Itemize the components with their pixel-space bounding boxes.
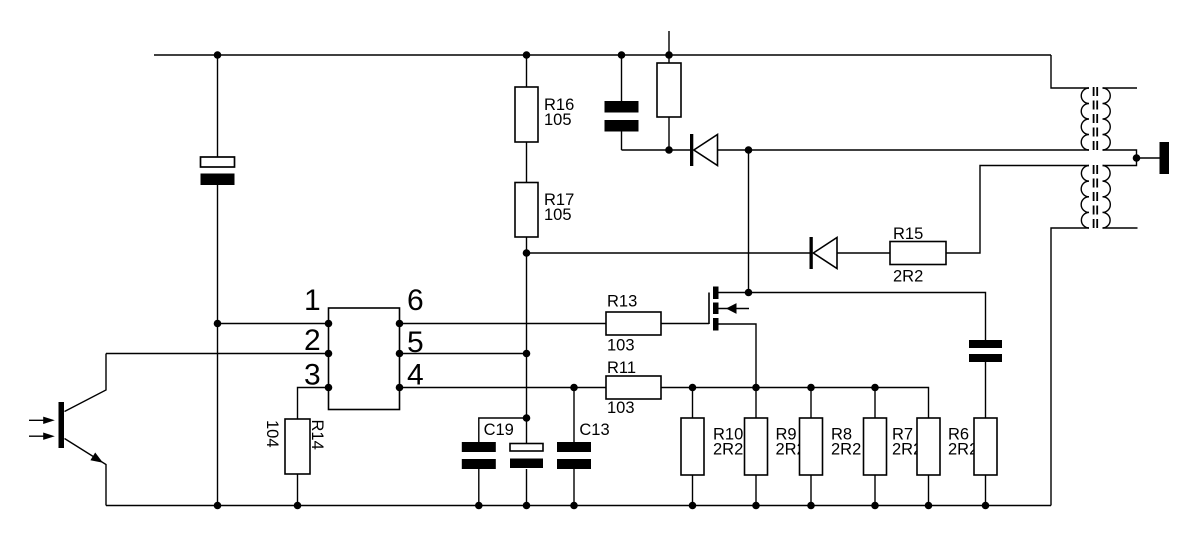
resistor clamp (top) bbox=[657, 63, 681, 117]
junction rail / C13 bbox=[570, 502, 578, 510]
junction primary node bbox=[745, 146, 753, 154]
junction rail / R9 bbox=[752, 502, 760, 510]
wire R14 bottom to rail bbox=[297, 474, 299, 506]
wire pin6 to R13 bbox=[400, 323, 607, 325]
wire phototransistor collector bbox=[65, 354, 107, 412]
wire R10 bottom stub bbox=[692, 475, 694, 506]
terminal bar (output) bbox=[1160, 142, 1170, 174]
junction rail / R8 bbox=[807, 502, 815, 510]
wire snubber cap bottom stub bbox=[621, 132, 623, 151]
wire left cap branch upper (from top rail to C bulk) bbox=[217, 55, 219, 157]
junction secondary center tap bbox=[1133, 154, 1141, 162]
pin 2 junction bbox=[325, 350, 333, 358]
svg-text:R13: R13 bbox=[607, 293, 637, 311]
wire drain row to snubber bbox=[719, 293, 986, 341]
transformer T1 primary winding bbox=[1081, 88, 1089, 150]
wire clamp resistor bottom stub bbox=[668, 117, 670, 150]
junction top rail / snubber cap bbox=[618, 51, 626, 59]
pin 5 junction bbox=[396, 350, 404, 358]
junction clamp bottom bbox=[665, 146, 673, 154]
wire R7 bottom stub bbox=[874, 475, 876, 506]
label R14 bbox=[308, 420, 326, 450]
label R9 bbox=[776, 426, 806, 459]
svg-text:R14: R14 bbox=[308, 420, 326, 450]
label R16 bbox=[544, 96, 574, 129]
junction R17 bottom bbox=[523, 249, 531, 257]
wire pin1 to IC bbox=[218, 323, 329, 325]
resistor snubber bbox=[974, 418, 997, 475]
emitter arrow bbox=[90, 453, 103, 463]
wire top rail right corner down to transformer bbox=[1051, 55, 1089, 88]
wire phototransistor emitter to bottom rail bbox=[65, 439, 107, 506]
label R8 bbox=[831, 426, 861, 459]
svg-text:103: 103 bbox=[607, 399, 635, 417]
wire C13 bottom to rail bbox=[573, 469, 575, 506]
wire bottom rail right corner up to transformer bbox=[1051, 228, 1089, 506]
svg-text:C13: C13 bbox=[579, 421, 609, 439]
wire secondary center tap upper bbox=[1103, 150, 1137, 158]
resistor R6 bbox=[917, 418, 940, 475]
wire C19 branch bbox=[479, 418, 527, 442]
wire R13 to MOSFET gate bbox=[661, 323, 709, 325]
wire secondary center tap lower bbox=[1103, 158, 1137, 166]
wire center tap to terminal bbox=[1137, 157, 1160, 159]
resistor R10 bbox=[681, 418, 704, 475]
resistor R17 bbox=[515, 183, 538, 238]
wire R6 bottom stub bbox=[928, 475, 930, 506]
junction rail / R7 bbox=[871, 502, 879, 510]
junction source / R9 top bbox=[752, 384, 760, 392]
wire R8 bottom stub bbox=[810, 475, 812, 506]
pin 3 label bbox=[304, 359, 321, 392]
junction pin1 / bulk branch bbox=[214, 320, 222, 328]
label R7 bbox=[892, 426, 922, 459]
wire top supply rail bbox=[154, 54, 1051, 56]
wire R11 to resistor bank bbox=[661, 388, 929, 419]
wire diode D1 to primary winding bbox=[718, 149, 1090, 151]
junction C19 branch bbox=[523, 414, 531, 422]
label R10 bbox=[713, 426, 743, 459]
MOSFET Q2 gate bar bbox=[708, 293, 710, 325]
capacitor snubber top bbox=[605, 101, 639, 132]
light arrow 2 bbox=[29, 433, 55, 440]
resistor R7 bbox=[864, 418, 887, 475]
wire R16 top stub bbox=[526, 55, 528, 87]
svg-text:R11: R11 bbox=[607, 359, 636, 377]
svg-text:2R2: 2R2 bbox=[713, 441, 743, 459]
wire pin4 to R11 bbox=[400, 387, 607, 389]
wire snubber cap to R snub bbox=[985, 362, 987, 419]
junction C13 / pin4 row bbox=[570, 384, 578, 392]
wire C19 bottom to rail bbox=[478, 469, 480, 506]
capacitor C19 bbox=[462, 442, 496, 469]
pin 6 label bbox=[407, 284, 424, 317]
wire R15 to corner bbox=[946, 166, 1089, 254]
transistor Q1 phototransistor bar bbox=[59, 402, 65, 448]
svg-text:103: 103 bbox=[607, 337, 635, 355]
transformer T1 lower-left winding bbox=[1081, 166, 1089, 229]
svg-text:104: 104 bbox=[263, 420, 281, 448]
resistor R13 bbox=[606, 312, 661, 335]
junction rail / R14 bbox=[294, 502, 302, 510]
svg-text:2R2: 2R2 bbox=[893, 268, 923, 286]
junction rail / elco bbox=[523, 502, 531, 510]
pin 1 junction bbox=[325, 320, 333, 328]
junction rail / R10 bbox=[689, 502, 697, 510]
resistor R14 bbox=[285, 419, 310, 474]
wire aux row from R17 node to diode D2 bbox=[527, 252, 810, 254]
wire pin2 to IC bbox=[106, 353, 329, 355]
MOSFET Q2 body arrow bbox=[719, 303, 750, 314]
junction R7 top bbox=[871, 384, 879, 392]
junction MOSFET drain bbox=[745, 289, 753, 297]
wire clamp resistor top stub above rail bbox=[668, 31, 670, 55]
wire snubber bottom link to diode bbox=[622, 149, 691, 151]
pin 3 junction bbox=[325, 384, 333, 392]
resistor R8 bbox=[800, 418, 823, 475]
label R14 value 104 bbox=[263, 420, 281, 448]
label C19 bbox=[484, 421, 514, 439]
pin 1 label bbox=[304, 284, 321, 317]
junction rail / bulk cap bbox=[214, 502, 222, 510]
label C13 bbox=[579, 421, 609, 439]
svg-text:1: 1 bbox=[304, 284, 321, 317]
wire diode D2 to R15 bbox=[837, 252, 890, 254]
junction rail / R6 bbox=[925, 502, 933, 510]
capacitor snubber right bbox=[969, 340, 1002, 362]
junction rail / snubber R bbox=[982, 502, 990, 510]
svg-text:3: 3 bbox=[304, 359, 321, 392]
capacitor C13 bbox=[557, 442, 591, 469]
wire bottom ground rail bbox=[106, 505, 1051, 507]
wire snubber cap top stub bbox=[621, 55, 623, 101]
svg-text:6: 6 bbox=[407, 284, 424, 317]
wire R9 top stub bbox=[810, 388, 812, 419]
label R11 bbox=[607, 359, 636, 417]
junction pin5 / mid branch bbox=[523, 350, 531, 358]
capacitor C bulk (electrolytic, top-left) bbox=[201, 157, 235, 185]
svg-text:105: 105 bbox=[544, 206, 572, 224]
wire pin3 to R14 bbox=[298, 388, 329, 420]
wire R8 top stub bbox=[874, 388, 876, 419]
pin 2 label bbox=[304, 324, 321, 357]
wire left cap branch lower (C bulk down to bottom rail) bbox=[217, 185, 219, 506]
pin 6 junction bbox=[396, 320, 404, 328]
resistor R11 bbox=[606, 376, 661, 399]
IC U1 optocoupler box bbox=[329, 308, 400, 410]
wire MOSFET source down to sense node bbox=[719, 324, 757, 418]
capacitor electrolytic mid bbox=[510, 444, 543, 469]
wire clamp resistor to rail bbox=[668, 55, 670, 63]
pin 5 label bbox=[407, 326, 424, 359]
svg-text:R15: R15 bbox=[893, 225, 923, 243]
wire secondary bottom lead bbox=[1103, 227, 1138, 229]
transformer T1 core lower bbox=[1094, 165, 1098, 229]
label R15 bbox=[893, 225, 923, 286]
transformer T1 core upper bbox=[1094, 87, 1098, 151]
label R6 bbox=[948, 426, 978, 459]
svg-text:C19: C19 bbox=[484, 421, 514, 439]
resistor R9 bbox=[745, 418, 768, 475]
svg-text:4: 4 bbox=[407, 359, 424, 392]
svg-text:5: 5 bbox=[407, 326, 424, 359]
wire C13 top stub bbox=[573, 388, 575, 443]
wire pin5 to R17 branch bbox=[400, 353, 527, 355]
wire secondary top lead bbox=[1103, 87, 1138, 89]
pin 4 junction bbox=[396, 384, 404, 392]
resistor R15 bbox=[890, 242, 946, 265]
wire R16-R17 link bbox=[526, 142, 528, 183]
transformer T1 lower-right winding bbox=[1103, 166, 1111, 229]
light arrow 1 bbox=[29, 417, 55, 424]
junction top rail / clamp R bbox=[665, 51, 673, 59]
label R17 bbox=[544, 191, 574, 224]
wire electrolytic C to bottom rail bbox=[526, 469, 528, 506]
svg-text:105: 105 bbox=[544, 111, 572, 129]
pin 4 label bbox=[407, 359, 424, 392]
junction top rail / R16 bbox=[523, 51, 531, 59]
resistor R16 bbox=[515, 87, 538, 142]
wire snubber R bottom stub bbox=[985, 475, 987, 506]
junction top rail / bulk cap bbox=[214, 51, 222, 59]
label R13 bbox=[607, 293, 637, 355]
diode D2 bbox=[810, 237, 838, 269]
svg-text:2: 2 bbox=[304, 324, 321, 357]
wire primary node down to MOSFET drain bbox=[748, 150, 750, 293]
junction rail / C19 bbox=[475, 502, 483, 510]
wire R10 top stub bbox=[692, 388, 694, 419]
junction R8 top bbox=[807, 384, 815, 392]
diode D1 bbox=[690, 134, 718, 166]
svg-text:2R2: 2R2 bbox=[831, 441, 861, 459]
MOSFET Q2 channel bars bbox=[713, 287, 719, 331]
junction R10 top bbox=[689, 384, 697, 392]
wire R17 bottom down to electrolytic C bbox=[526, 237, 528, 444]
wire R9 bottom stub bbox=[755, 475, 757, 506]
transformer T1 secondary upper winding bbox=[1103, 88, 1111, 150]
